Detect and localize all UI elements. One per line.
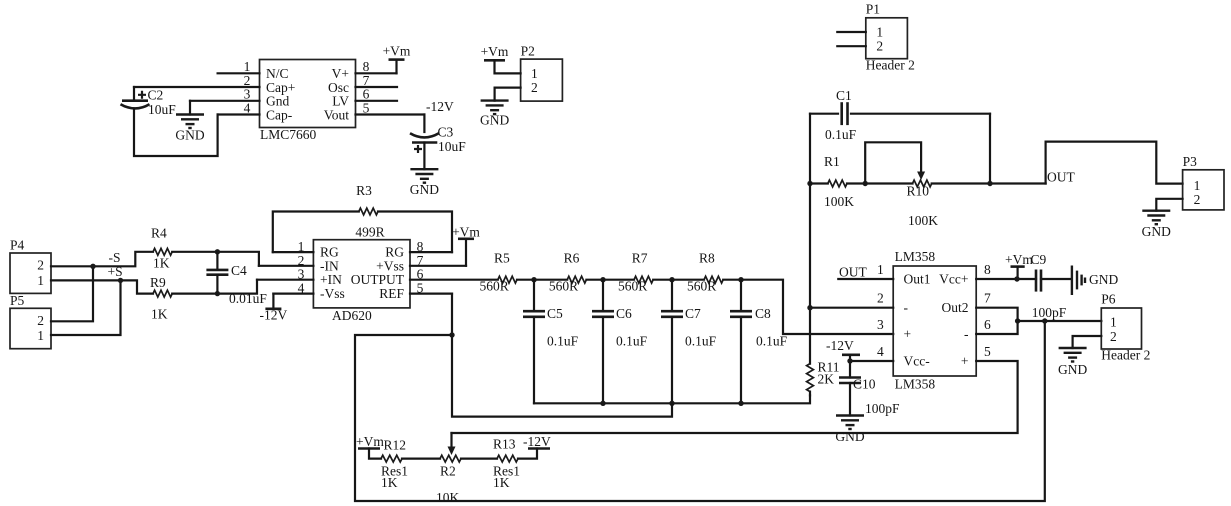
wire Vout to C3 xyxy=(423,115,425,133)
junction R10 left xyxy=(863,181,868,186)
svg-text:1K: 1K xyxy=(153,256,170,271)
resistor R12 xyxy=(381,438,408,491)
svg-text:0.01uF: 0.01uF xyxy=(229,291,267,306)
svg-text:5: 5 xyxy=(984,344,991,359)
resistor R5 xyxy=(480,251,518,294)
junction C7 xyxy=(669,277,674,282)
junction C5 xyxy=(531,277,536,282)
connector P6 xyxy=(1101,292,1150,363)
svg-text:R12: R12 xyxy=(384,438,407,453)
svg-text:C7: C7 xyxy=(685,306,701,321)
junction -S xyxy=(90,264,95,269)
svg-text:2: 2 xyxy=(37,258,44,273)
svg-text:Out1: Out1 xyxy=(904,272,931,287)
svg-text:LM358: LM358 xyxy=(895,377,936,392)
capacitor C2 xyxy=(121,87,177,117)
wire pin2 feedback vertical xyxy=(809,184,811,364)
svg-text:R6: R6 xyxy=(564,251,580,266)
junction rail C8 xyxy=(738,401,743,406)
op-amp AD620 body xyxy=(313,240,410,323)
op-amp U? LMC7660 body xyxy=(260,60,356,143)
resistor R3 xyxy=(355,183,384,240)
capacitor C10 xyxy=(839,377,900,417)
pin 4 xyxy=(850,344,893,361)
junction pin4 xyxy=(847,358,852,363)
capacitor C9 xyxy=(1031,252,1047,292)
resistor R8 xyxy=(687,251,723,294)
connector P2 xyxy=(521,44,563,102)
svg-text:GND: GND xyxy=(410,182,439,197)
svg-text:P1: P1 xyxy=(866,2,880,17)
svg-text:100pF: 100pF xyxy=(865,401,900,416)
wire R6 to R7 xyxy=(586,279,634,281)
resistor R9 xyxy=(150,275,172,322)
svg-text:8: 8 xyxy=(363,59,370,74)
wire P2 pin2 to ground xyxy=(495,88,521,101)
wire C1 left leg xyxy=(809,114,811,184)
pin 2 xyxy=(134,73,260,88)
potentiometer R10 xyxy=(865,142,938,228)
svg-text:P5: P5 xyxy=(10,293,25,308)
svg-text:6: 6 xyxy=(984,317,991,332)
svg-text:P6: P6 xyxy=(1101,292,1116,307)
wire REF to bottom rail xyxy=(355,321,1045,501)
svg-text:1: 1 xyxy=(37,273,44,288)
svg-text:6: 6 xyxy=(363,87,370,102)
svg-text:8: 8 xyxy=(984,262,991,277)
connector P5 xyxy=(10,293,51,349)
pin 6 xyxy=(356,87,398,102)
wire P1 pin1 stub xyxy=(837,31,866,33)
svg-text:RG: RG xyxy=(385,245,404,260)
svg-text:+Vm: +Vm xyxy=(383,44,411,59)
svg-text:+Vm: +Vm xyxy=(481,44,509,59)
svg-text:R1: R1 xyxy=(824,154,840,169)
svg-text:C2: C2 xyxy=(148,88,164,103)
svg-text:2: 2 xyxy=(876,39,883,54)
svg-text:Cap+: Cap+ xyxy=(266,80,295,95)
resistor R1 xyxy=(810,154,854,209)
pin 5 xyxy=(410,280,452,295)
svg-text:1: 1 xyxy=(37,328,44,343)
ground GND (P3) xyxy=(1142,211,1171,239)
junction C6 xyxy=(600,277,605,282)
wire R9 to AD620 pin3 xyxy=(172,280,257,294)
pin 2 xyxy=(259,253,314,268)
wire P5 pin2 to -S xyxy=(51,266,93,321)
svg-text:P2: P2 xyxy=(521,44,535,59)
connector P3 xyxy=(1183,154,1224,210)
junction C8 xyxy=(738,277,743,282)
pin 8 xyxy=(976,262,1072,279)
svg-text:C8: C8 xyxy=(755,306,771,321)
junction REF branch xyxy=(449,332,454,337)
wire P5 pin1 to +S xyxy=(51,280,121,335)
svg-text:100pF: 100pF xyxy=(1032,305,1067,320)
svg-text:AD620: AD620 xyxy=(332,308,372,323)
junction pin8 xyxy=(1014,276,1019,281)
svg-text:Vcc+: Vcc+ xyxy=(939,272,968,287)
svg-text:Vcc-: Vcc- xyxy=(904,354,931,369)
svg-text:R2: R2 xyxy=(440,464,456,479)
svg-text:R13: R13 xyxy=(493,437,516,452)
resistor R3 loop wire xyxy=(273,212,359,253)
svg-text:2: 2 xyxy=(244,73,251,88)
pin 8 xyxy=(410,239,452,254)
svg-text:GND: GND xyxy=(1089,272,1118,287)
svg-text:V+: V+ xyxy=(332,66,349,81)
svg-text:REF: REF xyxy=(379,286,404,301)
junction R9/C4 xyxy=(215,291,220,296)
power +Vm (LMC pin8) xyxy=(383,44,411,74)
wire C3 to ground xyxy=(423,143,425,170)
svg-text:Header 2: Header 2 xyxy=(1101,348,1150,363)
svg-text:1: 1 xyxy=(876,25,883,40)
svg-text:2K: 2K xyxy=(818,372,835,387)
power -12V (R13) xyxy=(518,434,551,459)
pin 2 xyxy=(810,291,893,308)
pin 1 xyxy=(838,262,893,279)
wire AD620 REF down xyxy=(452,294,672,417)
svg-text:0.1uF: 0.1uF xyxy=(616,334,648,349)
svg-text:0.1uF: 0.1uF xyxy=(685,334,717,349)
wire C2 minus loop to pin4 xyxy=(134,109,218,157)
ground GND (P2) xyxy=(480,101,509,128)
resistor R11 xyxy=(807,360,840,396)
svg-text:7: 7 xyxy=(984,291,991,306)
svg-text:2: 2 xyxy=(37,313,44,328)
capacitor C6 xyxy=(592,280,648,404)
junction R4/C4 xyxy=(215,249,220,254)
svg-text:3: 3 xyxy=(244,87,251,102)
capacitor C8 xyxy=(730,280,788,404)
svg-text:+: + xyxy=(904,327,912,342)
svg-text:R8: R8 xyxy=(699,251,715,266)
svg-text:3: 3 xyxy=(877,317,884,332)
junction pin2 xyxy=(807,305,812,310)
svg-text:1K: 1K xyxy=(381,475,398,490)
svg-text:560R: 560R xyxy=(618,279,647,294)
pin 7 xyxy=(356,73,398,88)
wire R2 to R13 xyxy=(461,458,497,460)
svg-text:OUT: OUT xyxy=(839,265,867,280)
op-amp U LM358 body xyxy=(893,249,976,392)
svg-text:100K: 100K xyxy=(908,213,938,228)
svg-text:0.1uF: 0.1uF xyxy=(756,334,788,349)
svg-text:+Vm: +Vm xyxy=(452,225,480,240)
svg-text:C5: C5 xyxy=(547,306,563,321)
wire OUT to P3 xyxy=(1046,142,1183,184)
svg-text:Gnd: Gnd xyxy=(266,94,289,109)
wire R1 to R10 xyxy=(847,182,913,184)
svg-text:N/C: N/C xyxy=(266,66,289,81)
svg-text:P3: P3 xyxy=(1183,154,1198,169)
svg-text:R5: R5 xyxy=(494,251,510,266)
wire P1 pin2 stub xyxy=(837,45,866,47)
svg-text:R10: R10 xyxy=(907,184,930,199)
svg-text:+: + xyxy=(961,354,969,369)
svg-text:R9: R9 xyxy=(150,275,166,290)
svg-text:560R: 560R xyxy=(549,279,578,294)
svg-text:+IN: +IN xyxy=(320,272,342,287)
svg-text:GND: GND xyxy=(1142,224,1171,239)
wire C1 right leg xyxy=(989,114,991,184)
pin 4 xyxy=(218,100,260,115)
capacitor C7 xyxy=(661,280,717,404)
ground GND (C10) xyxy=(835,416,864,445)
svg-text:560R: 560R xyxy=(687,279,716,294)
svg-text:0.1uF: 0.1uF xyxy=(825,127,857,142)
wire P6 pin2 to ground xyxy=(1073,336,1102,348)
svg-text:-Vss: -Vss xyxy=(320,286,345,301)
pin 1 xyxy=(218,59,260,74)
svg-text:Cap-: Cap- xyxy=(266,107,293,122)
power -12V (AD620 pin4) xyxy=(260,294,288,323)
power +Vm (LM358 pin8) xyxy=(1005,252,1033,279)
pin 4 xyxy=(273,280,313,295)
capacitor C1 xyxy=(810,88,990,142)
svg-text:C3: C3 xyxy=(438,125,454,140)
junction P6 branch xyxy=(1042,318,1047,323)
ground GND (P6) xyxy=(1058,348,1087,377)
svg-text:2: 2 xyxy=(1110,329,1117,344)
ground GND (C9, rotated) xyxy=(1072,266,1119,296)
junction rail C6 xyxy=(600,401,605,406)
svg-text:LMC7660: LMC7660 xyxy=(260,127,317,142)
wire P4 pin1 (+S) xyxy=(51,280,153,293)
svg-text:-IN: -IN xyxy=(320,258,339,273)
junction R1 left xyxy=(807,181,812,186)
svg-text:R4: R4 xyxy=(151,226,167,241)
svg-text:560R: 560R xyxy=(480,279,509,294)
resistor R13 xyxy=(493,437,520,491)
svg-text:R3: R3 xyxy=(356,183,372,198)
wire R4 to AD620 pin2 xyxy=(172,252,259,266)
junction feedback right xyxy=(987,181,992,186)
junction pins 7/6 xyxy=(1015,318,1020,323)
ground GND (C3) xyxy=(410,169,439,197)
svg-text:LV: LV xyxy=(332,94,349,109)
svg-text:Out2: Out2 xyxy=(942,300,969,315)
svg-text:GND: GND xyxy=(175,128,204,143)
svg-text:C10: C10 xyxy=(853,377,876,392)
svg-text:-12V: -12V xyxy=(426,99,454,114)
svg-text:4: 4 xyxy=(877,344,884,359)
junction rail C7 xyxy=(669,401,674,406)
svg-text:GND: GND xyxy=(1058,362,1087,377)
svg-text:LM358: LM358 xyxy=(895,249,936,264)
connector P1 xyxy=(866,2,915,73)
pin 8 xyxy=(356,59,397,74)
svg-text:OUT: OUT xyxy=(1047,170,1075,185)
resistor R4 xyxy=(151,226,172,271)
pin 7 xyxy=(976,291,1017,322)
pin 5 xyxy=(356,100,425,115)
capacitor C3 xyxy=(410,125,466,155)
wire R5 to R6 xyxy=(517,279,567,281)
wire R12 to R2 xyxy=(402,458,440,460)
pin 6 xyxy=(976,317,1017,334)
pin 3 xyxy=(190,87,260,102)
svg-text:Osc: Osc xyxy=(328,80,349,95)
power +Vm (AD620 pin7) xyxy=(452,225,480,266)
resistor R6 xyxy=(549,251,587,294)
connector P4 xyxy=(10,238,51,294)
svg-text:-12V: -12V xyxy=(260,308,288,323)
ground GND (LMC pin3) xyxy=(175,101,204,143)
svg-text:4: 4 xyxy=(244,100,251,115)
svg-text:5: 5 xyxy=(363,100,370,115)
wire junction to P6 pin1 xyxy=(1018,320,1102,322)
wire R8 to LM358 pin3 xyxy=(723,280,893,334)
wire AD620 OUTPUT to R5 xyxy=(410,279,498,281)
svg-text:-: - xyxy=(904,300,909,315)
svg-text:10uF: 10uF xyxy=(438,139,466,154)
svg-text:0.1uF: 0.1uF xyxy=(547,334,579,349)
capacitor C4 xyxy=(206,252,267,306)
svg-text:GND: GND xyxy=(480,112,509,127)
svg-text:+Vss: +Vss xyxy=(376,258,404,273)
svg-text:1: 1 xyxy=(1194,178,1201,193)
svg-text:C1: C1 xyxy=(836,88,852,103)
svg-text:1: 1 xyxy=(1110,315,1117,330)
potentiometer R2 xyxy=(436,433,461,505)
wire P3 pin2 to ground xyxy=(1156,199,1182,211)
svg-text:1K: 1K xyxy=(493,475,510,490)
pin 6 xyxy=(417,267,424,282)
svg-text:-: - xyxy=(964,327,969,342)
svg-text:2: 2 xyxy=(877,291,884,306)
wire R7 to R8 xyxy=(653,279,704,281)
svg-text:1K: 1K xyxy=(151,307,168,322)
svg-text:+Vm: +Vm xyxy=(1005,252,1033,267)
power +Vm (P2) xyxy=(481,44,521,73)
svg-text:RG: RG xyxy=(320,245,339,260)
svg-text:C9: C9 xyxy=(1031,252,1047,267)
svg-text:499R: 499R xyxy=(355,225,384,240)
svg-text:-12V: -12V xyxy=(826,338,854,353)
svg-text:1: 1 xyxy=(877,262,884,277)
junction +S xyxy=(118,278,123,283)
svg-text:Header 2: Header 2 xyxy=(866,58,915,73)
svg-text:-12V: -12V xyxy=(523,434,551,449)
pin 1 xyxy=(273,239,314,254)
svg-text:1: 1 xyxy=(244,59,251,74)
wire capacitor bottom rail xyxy=(534,395,810,403)
svg-text:2: 2 xyxy=(1194,192,1201,207)
svg-text:R7: R7 xyxy=(632,251,648,266)
svg-text:100K: 100K xyxy=(824,194,854,209)
svg-text:Vout: Vout xyxy=(324,107,350,122)
svg-text:10K: 10K xyxy=(436,490,460,505)
pin 7 xyxy=(410,253,466,268)
power -12V (LM358 pin4) xyxy=(826,338,860,378)
wire R10 to OUT corner xyxy=(932,182,1046,184)
svg-text:7: 7 xyxy=(363,73,370,88)
svg-text:-S: -S xyxy=(109,250,121,265)
svg-text:2: 2 xyxy=(531,80,538,95)
svg-text:+Vm: +Vm xyxy=(356,434,384,449)
resistor R7 xyxy=(618,251,653,294)
svg-text:OUTPUT: OUTPUT xyxy=(351,272,405,287)
pin 5 xyxy=(452,344,1018,433)
svg-text:P4: P4 xyxy=(10,238,25,253)
wire P4 pin2 (-S) xyxy=(51,252,153,266)
svg-text:C6: C6 xyxy=(616,306,632,321)
capacitor C5 xyxy=(523,280,579,404)
pin 3 xyxy=(877,317,884,332)
svg-text:C4: C4 xyxy=(231,263,247,278)
power +Vm (R12) xyxy=(356,434,384,459)
pin 3 xyxy=(257,267,313,282)
svg-text:GND: GND xyxy=(835,429,864,444)
svg-text:1: 1 xyxy=(531,66,538,81)
svg-text:10uF: 10uF xyxy=(148,102,176,117)
